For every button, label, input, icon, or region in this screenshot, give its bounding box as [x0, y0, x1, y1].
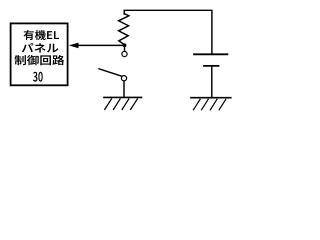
label: 制御回路 — [15, 55, 65, 65]
ground G1 hatches — [105, 99, 138, 110]
switch pivot contact circle — [121, 76, 126, 81]
label: 30 — [33, 72, 43, 82]
ground G2 hatches — [193, 99, 225, 110]
wire: arrow from node A to control box — [78, 44, 124, 46]
wire: top rail — [124, 10, 212, 53]
switch lever — [99, 69, 122, 76]
ground G2 bar — [191, 97, 231, 99]
wire: switch to ground — [123, 81, 125, 97]
ground G1 bar — [104, 96, 142, 98]
label: パネル — [22, 43, 59, 53]
box: organic EL panel control circuit 30 — [11, 23, 68, 85]
switch fixed contact circle — [122, 51, 127, 56]
battery negative plate — [204, 65, 219, 67]
arrowhead into box — [69, 43, 79, 49]
wire: battery to ground — [211, 67, 213, 98]
label: 有機EL — [24, 30, 60, 40]
battery positive plate — [194, 53, 227, 55]
resistor R — [119, 14, 129, 45]
node A junction dot — [123, 43, 127, 47]
wire: node A to switch fixed contact — [124, 45, 126, 51]
